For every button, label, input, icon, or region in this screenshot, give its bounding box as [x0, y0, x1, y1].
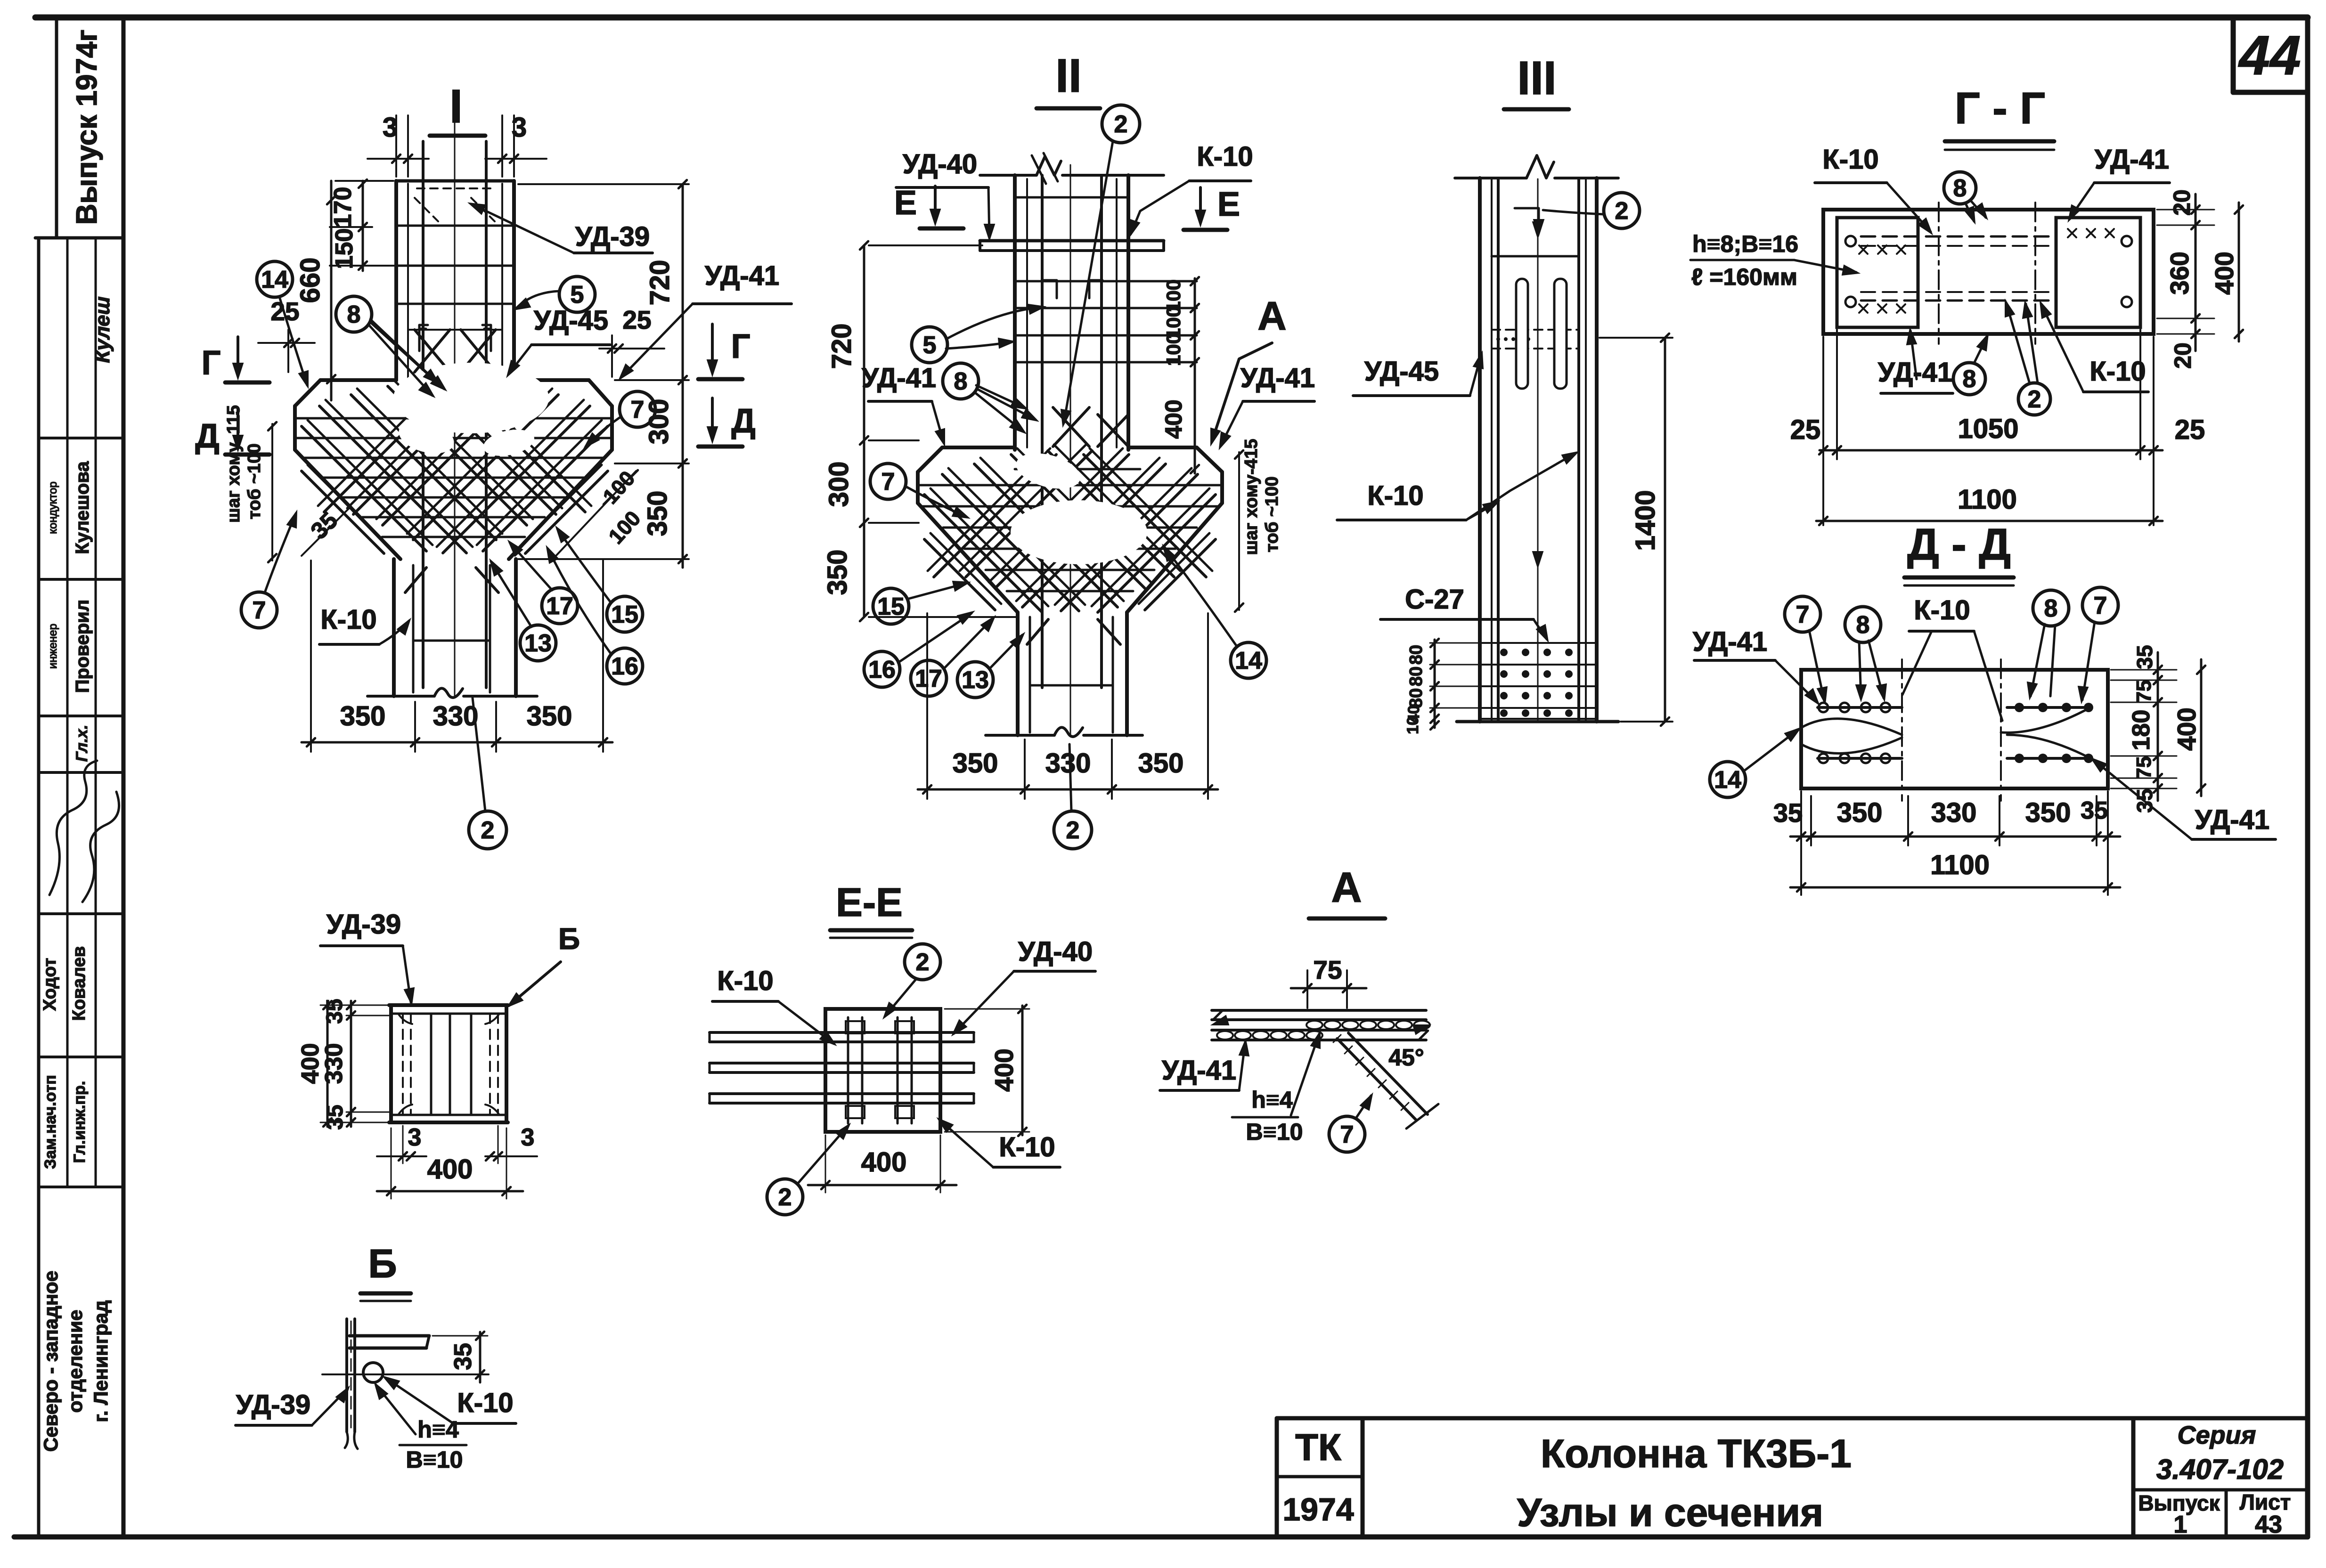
section Д-Д left bars	[1818, 706, 1902, 709]
view Б-square side walls	[389, 1005, 393, 1122]
svg-text:350: 350	[1138, 748, 1184, 779]
svg-text:330: 330	[1931, 797, 1977, 828]
svg-text:кондуктор: кондуктор	[47, 481, 59, 534]
svg-text:1974: 1974	[1282, 1492, 1354, 1527]
view III УД-45 splice band	[1492, 329, 1579, 331]
svg-text:2: 2	[2028, 386, 2041, 413]
svg-text:УД-41: УД-41	[2195, 804, 2269, 835]
svg-text:1100: 1100	[1958, 484, 2017, 515]
view II centerline	[1070, 165, 1071, 735]
view I lattice diagonals down-right	[302, 426, 426, 551]
svg-text:170: 170	[329, 187, 357, 228]
svg-text:1: 1	[2174, 1511, 2187, 1538]
page frame top border	[35, 15, 2308, 21]
view А callout 7	[1329, 1116, 1365, 1152]
svg-text:УД-45: УД-45	[534, 305, 608, 336]
svg-text:35: 35	[2132, 645, 2157, 669]
svg-text:УД-41: УД-41	[1693, 626, 1767, 657]
svg-text:7: 7	[881, 468, 895, 496]
svg-text:УД-41: УД-41	[1162, 1055, 1236, 1086]
svg-text:Гл.х.: Гл.х.	[73, 725, 91, 762]
view I top column outline	[394, 181, 398, 380]
svg-text:350: 350	[527, 701, 572, 731]
svg-text:14: 14	[261, 266, 288, 293]
svg-text:7: 7	[2094, 592, 2107, 619]
view I bottom column tie	[413, 640, 490, 642]
section Б plate	[350, 1334, 429, 1338]
view I dim 660	[330, 181, 333, 400]
svg-text:75: 75	[2132, 756, 2155, 780]
view II note ref line	[1238, 452, 1240, 610]
svg-text:720: 720	[645, 260, 675, 306]
view I lattice diagonals down-left	[483, 426, 608, 551]
view II lattice diagonals down-right	[924, 495, 1042, 612]
svg-text:Б: Б	[558, 922, 580, 956]
svg-text:20: 20	[2169, 189, 2195, 216]
svg-text:1100: 1100	[1930, 850, 1990, 880]
svg-text:7: 7	[1340, 1121, 1354, 1148]
view III horizontal rebar	[1492, 255, 1579, 258]
view II top cut line	[980, 174, 1036, 177]
section Е-Е bars row1	[710, 1031, 974, 1034]
view I bottom column inner lines	[412, 565, 415, 692]
view I rebar hooks in column	[419, 325, 428, 351]
svg-text:Ковалев: Ковалев	[69, 946, 89, 1021]
svg-text:400: 400	[2172, 707, 2201, 751]
svg-text:Ходот: Ходот	[40, 958, 60, 1011]
svg-text:2: 2	[1615, 197, 1629, 225]
section Е-Е bars row3	[710, 1092, 974, 1095]
svg-text:шаг хому. 115: шаг хому. 115	[224, 405, 244, 523]
svg-text:К-10: К-10	[1197, 141, 1253, 172]
svg-text:Е: Е	[894, 184, 917, 222]
svg-text:13: 13	[962, 666, 989, 694]
svg-text:УД-45: УД-45	[1364, 356, 1439, 387]
svg-text:35: 35	[322, 999, 347, 1024]
title block Серия divider	[2131, 1418, 2136, 1537]
section Г-Г right plate	[2056, 218, 2140, 327]
view I dim 150	[359, 261, 367, 270]
svg-text:400: 400	[297, 1043, 324, 1084]
view А diagonal member	[1337, 1039, 1416, 1120]
sidebar signature scribble 2	[82, 792, 119, 902]
view II horizontal rebars	[1015, 196, 1128, 199]
svg-text:Гл.инж.пр.: Гл.инж.пр.	[71, 1081, 89, 1163]
section Е-Е right dim 400	[1021, 1006, 1024, 1135]
svg-text:330: 330	[320, 1043, 348, 1084]
svg-text:Г - Г: Г - Г	[1955, 83, 2045, 133]
view I note vertical ref line	[271, 424, 273, 561]
svg-text:К-10: К-10	[717, 966, 773, 996]
title block middle line	[2133, 1488, 2308, 1492]
svg-text:10: 10	[1404, 716, 1422, 734]
svg-text:14: 14	[1714, 766, 1741, 794]
view III bottom rebar bands	[1480, 642, 1597, 644]
svg-text:Проверил: Проверил	[72, 600, 93, 693]
svg-text:шаг хому-415: шаг хому-415	[1241, 439, 1261, 555]
svg-text:35: 35	[449, 1343, 477, 1370]
svg-text:300: 300	[824, 462, 854, 507]
svg-text:330: 330	[433, 701, 479, 731]
page number box 44	[2231, 20, 2236, 92]
section Г-Г callout 8 top	[1944, 172, 1976, 204]
view III centerline	[1537, 179, 1539, 721]
view I scan white-out blotch	[393, 363, 549, 433]
svg-text:75: 75	[2132, 680, 2155, 703]
view II column rebars	[1041, 175, 1044, 688]
svg-text:К-10: К-10	[1914, 595, 1970, 626]
view III column outline	[1478, 178, 1482, 722]
svg-text:ℓ =160мм: ℓ =160мм	[1691, 264, 1797, 290]
view Б-square bottom plate	[389, 1121, 508, 1124]
svg-text:8: 8	[1856, 611, 1870, 639]
section Д-Д right dims	[2157, 652, 2159, 801]
svg-text:350: 350	[822, 550, 853, 595]
section Д-Д bottom dims	[1790, 836, 2120, 838]
title block ТК box	[1275, 1418, 1279, 1537]
section Г-Г outer box	[1823, 210, 2154, 334]
svg-text:II: II	[1055, 49, 1082, 102]
view II bottom tie	[1030, 684, 1113, 687]
svg-text:8: 8	[1963, 366, 1976, 393]
view II brace stubs	[1027, 619, 1048, 644]
svg-text:8: 8	[954, 368, 968, 395]
svg-text:h≡4: h≡4	[1251, 1087, 1293, 1113]
svg-text:25: 25	[1790, 414, 1821, 445]
svg-text:360: 360	[2165, 252, 2194, 295]
svg-text:3: 3	[521, 1124, 535, 1151]
svg-text:7: 7	[1796, 601, 1810, 628]
svg-text:80: 80	[1406, 666, 1426, 686]
svg-text:100: 100	[1162, 333, 1184, 366]
svg-text:УД-41: УД-41	[1241, 363, 1315, 393]
svg-text:35: 35	[1773, 798, 1803, 828]
svg-text:2: 2	[1114, 111, 1128, 138]
svg-text:Д - Д: Д - Д	[1907, 520, 2011, 569]
svg-text:350: 350	[642, 491, 673, 536]
svg-text:400: 400	[989, 1048, 1019, 1092]
svg-text:17: 17	[546, 593, 573, 620]
section Г-Г bottom dim 1050	[1820, 449, 2163, 452]
section Г-Г column cut chain lines	[1938, 203, 1940, 344]
svg-text:3: 3	[383, 112, 398, 143]
section Д-Д callout 8 right	[2033, 590, 2069, 626]
section Г-Г right dims	[2195, 194, 2197, 351]
svg-text:17: 17	[915, 665, 942, 692]
view Б-square left dims	[350, 1001, 352, 1127]
section Б baseline	[322, 1373, 489, 1375]
view I bottom break line	[367, 695, 434, 698]
view III bottom edge	[1457, 720, 1618, 723]
section Г-Г left plate	[1837, 218, 1918, 327]
view А weld ovals	[1306, 1021, 1322, 1029]
svg-text:8: 8	[2044, 595, 2058, 622]
view Б-square bottom dim 400	[377, 1190, 523, 1193]
svg-text:660: 660	[295, 258, 326, 303]
section Д-Д left bar dots	[1819, 703, 1828, 712]
svg-text:3.407-102: 3.407-102	[2156, 1454, 2284, 1485]
svg-text:15: 15	[877, 593, 905, 620]
view I callout 14	[257, 261, 293, 297]
view I bottom column brace stubs	[405, 568, 426, 593]
view I top column rebar bars	[422, 141, 424, 688]
view II callout 5	[912, 327, 947, 363]
section Д-Д bottom dim 1100	[1790, 886, 2120, 889]
view II callout 2 bottom	[1054, 811, 1092, 849]
svg-text:43: 43	[2255, 1511, 2282, 1538]
svg-text:Колонна ТК3Б-1: Колонна ТК3Б-1	[1541, 1431, 1852, 1476]
svg-text:8: 8	[347, 301, 361, 328]
view II callout 2 top	[1102, 105, 1140, 143]
svg-text:2: 2	[481, 817, 495, 844]
svg-text:1050: 1050	[1958, 414, 2018, 444]
svg-text:К-10: К-10	[999, 1132, 1055, 1162]
svg-text:К-10: К-10	[2089, 356, 2146, 387]
view II callout 15	[873, 588, 909, 624]
svg-text:45°: 45°	[1388, 1044, 1424, 1071]
svg-text:инженер: инженер	[47, 624, 59, 669]
view I callout 8	[336, 296, 372, 332]
view I brace stubs above slab	[415, 330, 450, 372]
svg-text:2: 2	[1066, 817, 1080, 844]
svg-text:К-10: К-10	[1367, 480, 1423, 511]
svg-text:35: 35	[2081, 797, 2108, 824]
section Б weld circle	[363, 1363, 383, 1382]
svg-text:Кулешова: Кулешова	[72, 461, 93, 554]
view I bottom column outline	[392, 559, 396, 696]
svg-text:13: 13	[524, 630, 552, 657]
svg-text:400: 400	[427, 1154, 473, 1185]
view Б-square corner welds	[398, 1014, 412, 1024]
svg-text:тоб ~100: тоб ~100	[245, 444, 264, 520]
section Е-Е inner stubs	[846, 1021, 865, 1033]
view Б-square top plate	[389, 1003, 508, 1007]
section Д-Д callout 7 left	[1785, 596, 1820, 632]
view I slab outline	[295, 380, 320, 406]
section Г-Г bottom dim 1100	[1816, 520, 2163, 522]
svg-text:25: 25	[622, 305, 651, 334]
view I callout 13	[520, 625, 556, 661]
view Б-square inner verticals	[430, 1014, 433, 1115]
view I bottom dim 350 330 350	[302, 741, 612, 744]
section Г-Г middle bars dashed	[1861, 236, 2054, 238]
view II callout 8	[943, 363, 979, 399]
svg-text:С-27: С-27	[1405, 584, 1464, 615]
view II brace stubs above slab	[1053, 407, 1089, 447]
svg-text:7: 7	[253, 597, 266, 624]
svg-text:УД-41: УД-41	[705, 260, 779, 291]
view II column inner lines	[1026, 179, 1028, 447]
svg-text:УД-40: УД-40	[1018, 936, 1093, 967]
svg-text:тоб ~100: тоб ~100	[1262, 477, 1282, 552]
svg-text:2: 2	[916, 949, 930, 976]
view I top dim 3 left	[395, 115, 397, 177]
view III callout 2	[1604, 193, 1640, 228]
section Б dim 35	[479, 1332, 482, 1382]
svg-text:330: 330	[1045, 748, 1091, 779]
svg-text:15: 15	[611, 601, 638, 628]
section Е-Е bars row2	[710, 1062, 974, 1064]
sidebar table grid	[55, 17, 58, 238]
svg-text:УД-39: УД-39	[326, 909, 401, 940]
svg-text:75: 75	[1313, 955, 1342, 984]
view I dim 170	[362, 181, 364, 271]
view I top column inner flange lines	[407, 184, 409, 379]
view II slab outline	[918, 447, 942, 472]
view I column centerline	[454, 122, 456, 696]
svg-text:Кулеш: Кулеш	[91, 296, 114, 363]
svg-text:УД-39: УД-39	[575, 221, 650, 252]
view I callout 17	[542, 588, 578, 624]
view II callout 17	[911, 660, 947, 696]
view I callout 15	[607, 596, 643, 632]
sidebar signature scribble 1	[49, 761, 97, 895]
svg-text:80: 80	[1406, 645, 1426, 665]
svg-text:16: 16	[611, 653, 638, 680]
view II callout 14	[1231, 642, 1266, 678]
view I callout 7 left	[241, 592, 277, 628]
svg-text:25: 25	[2175, 414, 2205, 445]
svg-text:80: 80	[1406, 688, 1426, 708]
view Б-square inner dashed verticals	[402, 1014, 404, 1115]
svg-text:350: 350	[2025, 797, 2071, 828]
view III bent bar 2	[1515, 208, 1539, 233]
section Д-Д bent plate curves	[1801, 719, 1902, 735]
section Д-Д right bars	[2007, 706, 2090, 709]
section Г-Г left plate bar circles	[1845, 236, 1856, 246]
svg-text:350: 350	[340, 701, 386, 731]
svg-text:h≡4: h≡4	[417, 1416, 459, 1443]
section Е-Е outer box	[825, 1009, 940, 1132]
view III column rebars	[1497, 179, 1500, 721]
view II right dim 100s	[1194, 278, 1196, 473]
svg-text:400: 400	[2210, 252, 2239, 295]
svg-text:8: 8	[1953, 175, 1967, 202]
view I slab horizontal rebars	[297, 417, 610, 420]
view II bottom column outline	[1016, 612, 1020, 735]
svg-text:Северо - западное: Северо - западное	[40, 1271, 62, 1452]
title block Выпуск-Лист divider	[2225, 1490, 2228, 1537]
section Д-Д callout 8 left	[1845, 607, 1881, 642]
svg-text:Зам.нач.отп: Зам.нач.отп	[41, 1075, 59, 1169]
svg-text:I: I	[449, 80, 463, 133]
section Д-Д column cut chain lines	[1901, 659, 1903, 801]
section Д-Д callout 14	[1710, 762, 1746, 797]
section Г-Г callout 8 bottom	[1953, 363, 1985, 395]
view II left dim chain	[863, 245, 865, 617]
svg-text:350: 350	[953, 748, 998, 779]
view I top column horizontal rebar	[396, 225, 514, 227]
svg-text:720: 720	[826, 324, 857, 369]
svg-text:К-10: К-10	[1822, 144, 1878, 175]
svg-text:отделение: отделение	[64, 1310, 86, 1413]
svg-text:3: 3	[408, 1124, 422, 1151]
svg-text:Б: Б	[368, 1242, 397, 1286]
svg-text:Г: Г	[202, 344, 221, 382]
svg-text:5: 5	[571, 281, 584, 309]
view II top flange plate	[980, 239, 1164, 243]
view II callout 16	[864, 651, 900, 687]
svg-text:УД-40: УД-40	[903, 149, 977, 179]
section Е-Е callout 2 bottom	[767, 1179, 803, 1215]
view II scan white-out blotch	[1011, 500, 1147, 564]
svg-text:УД-39: УД-39	[236, 1389, 310, 1420]
view III column inner lines	[1491, 179, 1493, 721]
view I top dim 3 right	[501, 115, 503, 177]
svg-text:Е-Е: Е-Е	[836, 880, 903, 925]
view II bottom dim 350 330 350	[918, 788, 1218, 791]
view I callout 2	[469, 811, 506, 849]
svg-text:А: А	[1257, 294, 1286, 339]
section Е-Е callout 2 top	[905, 944, 940, 980]
section Д-Д right bar dots	[2015, 703, 2024, 712]
svg-text:400: 400	[1160, 399, 1187, 439]
view А plate end marks	[1212, 1016, 1229, 1025]
section Б stem	[345, 1319, 348, 1432]
svg-text:Выпуск 1974г: Выпуск 1974г	[71, 30, 103, 225]
svg-text:180: 180	[2128, 710, 2155, 751]
svg-text:14: 14	[1235, 647, 1262, 674]
page frame right border	[2305, 17, 2310, 1537]
view III top edge with break	[1455, 177, 1526, 179]
svg-text:3: 3	[512, 112, 527, 143]
svg-text:5: 5	[923, 332, 937, 359]
view III left dim stack 80 80 80 40 10	[1434, 640, 1436, 728]
view I right dim chain	[682, 184, 684, 568]
svg-text:А: А	[1331, 864, 1362, 911]
svg-text:ТК: ТК	[1295, 1426, 1341, 1468]
view I callout 7 right	[620, 391, 655, 427]
svg-text:УД-41: УД-41	[2095, 144, 2169, 175]
title block top line	[1277, 1416, 2308, 1421]
svg-text:УД-41: УД-41	[862, 363, 936, 393]
view II column outline	[1013, 175, 1017, 450]
view II slab horizontal rebars	[922, 505, 1218, 508]
svg-text:Серия: Серия	[2178, 1421, 2256, 1449]
svg-text:16: 16	[868, 656, 896, 683]
svg-text:20: 20	[2170, 342, 2196, 369]
svg-text:К-10: К-10	[320, 604, 376, 635]
view II lattice diagonals down-left	[1098, 495, 1216, 612]
svg-text:7: 7	[631, 396, 645, 423]
view II bottom column inner	[1029, 617, 1031, 732]
view А plates	[1212, 1009, 1426, 1012]
view I callout 5	[559, 276, 595, 312]
svg-text:Г: Г	[731, 328, 751, 366]
section Е-Е inner verticals	[847, 1017, 849, 1123]
section Г-Г right plate bar circles	[2122, 236, 2132, 246]
svg-text:К-10: К-10	[457, 1388, 513, 1418]
view II callout 7	[870, 463, 906, 499]
svg-text:Е: Е	[1217, 186, 1240, 223]
view II callout 13	[957, 662, 993, 698]
view I top column dashed details	[415, 198, 438, 221]
svg-text:Д: Д	[731, 402, 755, 440]
svg-text:400: 400	[861, 1147, 907, 1178]
section Г-Г callout 2 bottom	[2018, 383, 2050, 415]
svg-text:г. Ленинград: г. Ленинград	[90, 1300, 112, 1422]
section Г-Г weld x-marks	[1859, 245, 1868, 254]
svg-text:h≡8;В≡16: h≡8;В≡16	[1692, 231, 1798, 257]
svg-text:25: 25	[270, 297, 299, 326]
svg-text:III: III	[1517, 52, 1556, 105]
svg-text:Узлы и сечения: Узлы и сечения	[1517, 1490, 1823, 1535]
view II rebar hooks	[1044, 280, 1057, 298]
section Е-Е bottom dim 400	[808, 1184, 956, 1186]
view II bottom break line	[986, 734, 1054, 737]
view III slots	[1516, 279, 1528, 389]
page frame bottom border	[14, 1535, 2308, 1540]
